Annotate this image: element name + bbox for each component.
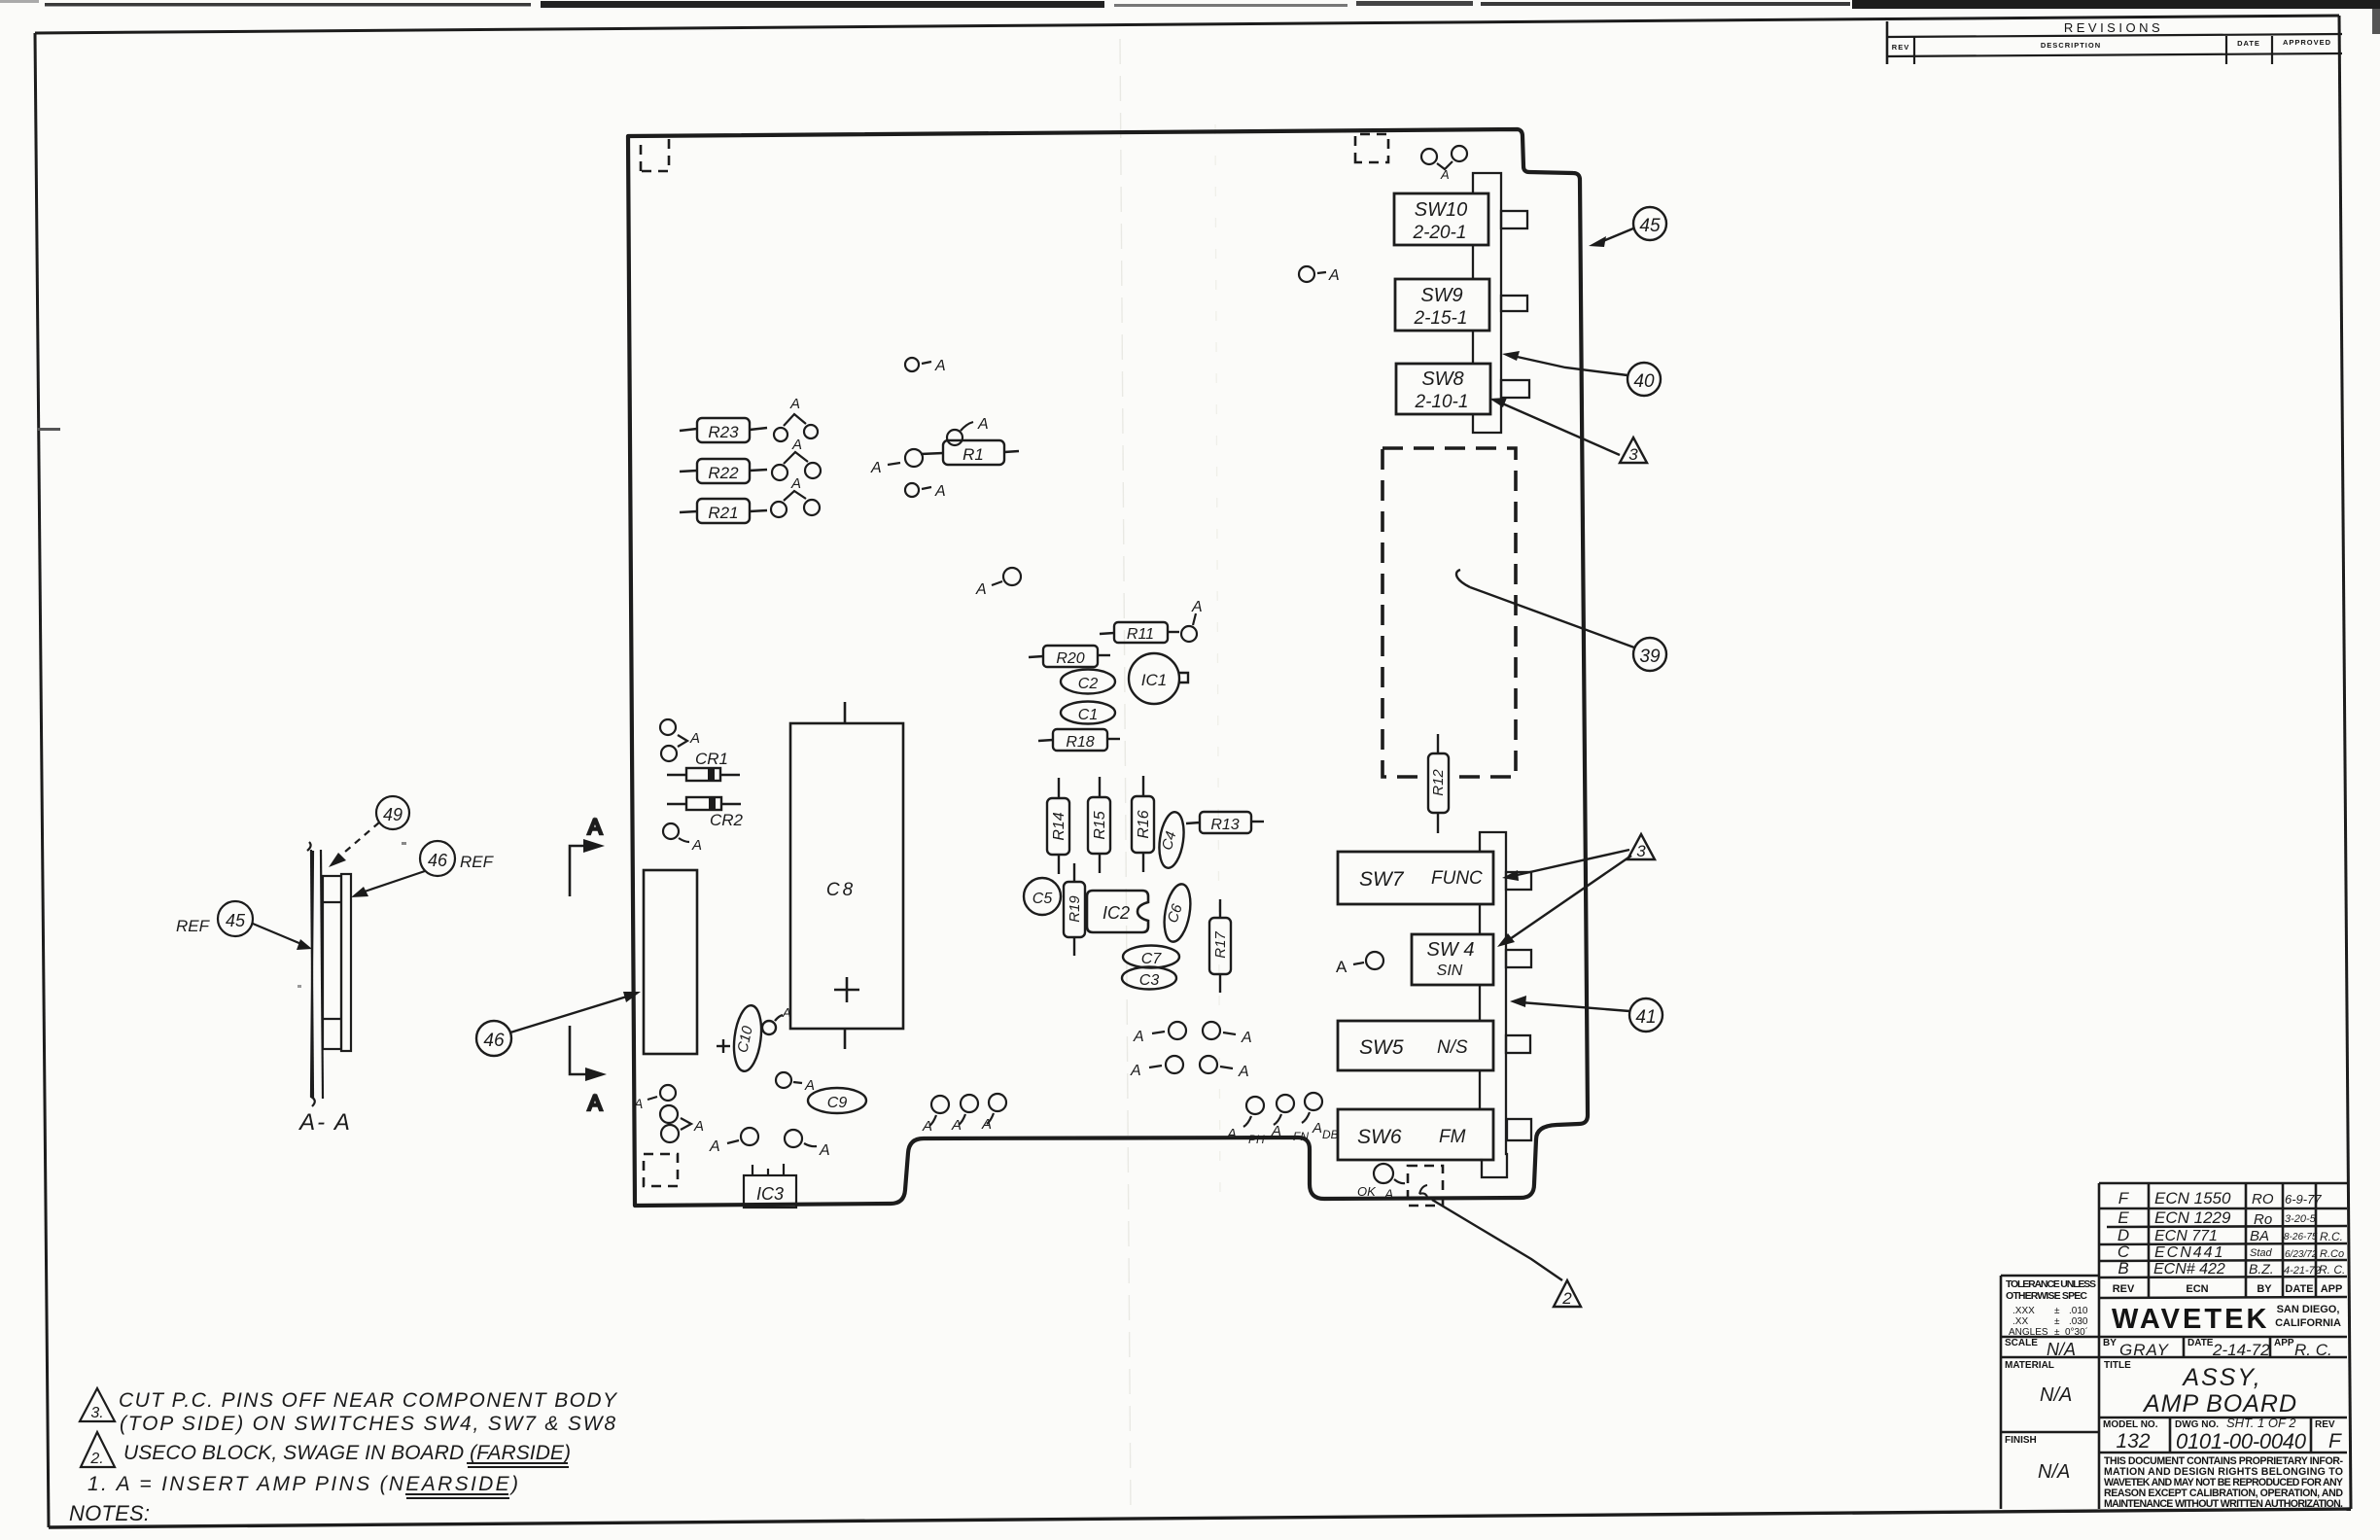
svg-text:A: A: [977, 416, 989, 433]
pad O-A below C10: [776, 1072, 815, 1094]
resistor R14 (vertical): [1047, 778, 1069, 874]
resistor R21: [680, 499, 767, 523]
ECN revision table grid: [2099, 1182, 2347, 1185]
svg-text:F: F: [2118, 1189, 2130, 1207]
svg-text:NOTES:: NOTES:: [69, 1501, 150, 1525]
fold line vertical faint: [1120, 39, 1131, 1517]
svg-text:E: E: [2117, 1208, 2129, 1227]
switch SW5 N/S: [1338, 1021, 1493, 1070]
border frame: [35, 16, 2339, 33]
svg-text:R11: R11: [1127, 626, 1154, 643]
capacitor C6 (tilted): [1160, 882, 1194, 943]
proprietary text: [2104, 1455, 2343, 1510]
svg-text:FINISH: FINISH: [2005, 1435, 2037, 1446]
svg-text:DESCRIPTION: DESCRIPTION: [2041, 41, 2101, 50]
svg-text:IC1: IC1: [1141, 671, 1167, 689]
section cut arrow A (top): [570, 815, 605, 896]
svg-text:132: 132: [2116, 1430, 2150, 1452]
svg-text:WAVETEK: WAVETEK: [2112, 1304, 2267, 1335]
svg-text:2.: 2.: [89, 1451, 103, 1467]
svg-text:R.Co: R.Co: [2320, 1248, 2344, 1260]
svg-text:6-9-77: 6-9-77: [2285, 1192, 2322, 1207]
svg-text:APP: APP: [2274, 1338, 2294, 1348]
svg-text:SHT. 1 OF 2: SHT. 1 OF 2: [2226, 1416, 2296, 1430]
svg-text:ECN# 422: ECN# 422: [2153, 1261, 2225, 1277]
callout triangle 3 (upper): [1489, 398, 1647, 464]
svg-text:REV: REV: [1892, 43, 1909, 52]
svg-text:A: A: [691, 837, 702, 854]
svg-text:46: 46: [483, 1031, 505, 1051]
svg-text:USECO BLOCK, SWAGE IN BOARD: USECO BLOCK, SWAGE IN BOARD (FARSIDE): [123, 1442, 571, 1464]
svg-text:R19: R19: [1067, 895, 1083, 923]
resistor R18: [1038, 729, 1120, 751]
svg-text:3: 3: [1636, 842, 1646, 860]
svg-text:ANGLES: ANGLES: [2009, 1327, 2048, 1338]
svg-text:PH: PH: [1248, 1133, 1265, 1146]
ECN table handwritten rows: [2117, 1189, 2345, 1277]
resistor R20: [1029, 646, 1110, 667]
svg-text:SW8: SW8: [1421, 368, 1463, 390]
svg-text:DB: DB: [1322, 1128, 1339, 1141]
switch SW10: [1394, 193, 1488, 245]
svg-text:F: F: [2328, 1430, 2342, 1452]
svg-text:R. C.: R. C.: [2319, 1263, 2345, 1277]
svg-text:B: B: [2117, 1259, 2128, 1277]
pad OK A: [1357, 1164, 1405, 1202]
svg-text:SAN DIEGO,: SAN DIEGO,: [2277, 1304, 2340, 1315]
svg-text:MODEL NO.: MODEL NO.: [2103, 1419, 2158, 1430]
svg-text:A: A: [633, 1096, 643, 1111]
WAVETEK logo row: [2112, 1304, 2341, 1335]
callout 45: [1589, 207, 1666, 247]
svg-text:APP: APP: [2321, 1283, 2343, 1295]
resistor R22: [680, 459, 767, 483]
svg-text:IC2: IC2: [1102, 903, 1130, 923]
pads near CR1: [660, 719, 700, 761]
svg-text:A: A: [981, 1116, 992, 1133]
svg-text:R23: R23: [708, 423, 739, 441]
resistor R13: [1186, 812, 1264, 833]
svg-text:A: A: [790, 475, 801, 492]
callout 39: [1456, 570, 1666, 671]
svg-text:Ro: Ro: [2254, 1211, 2272, 1228]
dashed square top-middle: [1355, 134, 1388, 162]
scale/by/date/app row: [2005, 1338, 2332, 1359]
pad O-A below R1: [905, 483, 946, 500]
svg-text:±: ±: [2054, 1306, 2060, 1316]
resistor R15 (vertical): [1088, 777, 1110, 873]
capacitor C2: [1061, 670, 1115, 694]
callout 46 REF: [351, 841, 495, 897]
pads O-A top right of board: [1421, 146, 1467, 182]
svg-text:SW 4: SW 4: [1427, 939, 1475, 961]
svg-text:±: ±: [2054, 1316, 2060, 1327]
resistor R17 (vertical): [1209, 899, 1231, 993]
svg-text:3: 3: [1628, 445, 1638, 464]
resistor R12 (vertical, in dashed rect): [1428, 734, 1449, 833]
svg-text:R14: R14: [1051, 812, 1067, 840]
svg-text:N/S: N/S: [1437, 1037, 1468, 1058]
capacitor C9: [808, 1088, 866, 1113]
capacitor C8 (large): [790, 702, 903, 1049]
svg-text:C5: C5: [1032, 891, 1053, 907]
svg-text:B.Z.: B.Z.: [2249, 1261, 2274, 1277]
svg-text:SIN: SIN: [1437, 962, 1463, 979]
callout 49 (dashed leader): [329, 796, 409, 867]
svg-text:.010: .010: [2069, 1306, 2088, 1316]
svg-text:A: A: [934, 358, 946, 374]
svg-text:REF: REF: [176, 917, 211, 935]
switch SW8: [1396, 364, 1490, 414]
svg-text:C9: C9: [827, 1095, 848, 1111]
bracket strip upper (item 45/40): [1473, 173, 1529, 433]
svg-text:A: A: [693, 1118, 704, 1135]
svg-text:Stad: Stad: [2250, 1247, 2273, 1259]
svg-text:A: A: [782, 1005, 791, 1020]
svg-text:A: A: [1226, 1126, 1237, 1142]
svg-text:41: 41: [1635, 1007, 1656, 1028]
svg-text:46: 46: [428, 851, 448, 870]
tolerance block: [2001, 1275, 2099, 1277]
svg-text:3-20-5: 3-20-5: [2285, 1213, 2317, 1225]
section A-A: bracket 46 profile: [323, 874, 351, 1051]
svg-text:40: 40: [1633, 371, 1655, 392]
svg-text:MAINTENANCE WITHOUT WRITTEN AU: MAINTENANCE WITHOUT WRITTEN AUTHORIZATIO…: [2104, 1498, 2343, 1510]
section A-A side view: board bar: [307, 842, 323, 1106]
pads A-O / O-A pair row2: [1130, 1056, 1249, 1080]
svg-text:2: 2: [1561, 1289, 1572, 1308]
callout triangle 3 (lower, by SW7/SW4): [1497, 834, 1655, 947]
svg-text:REV: REV: [2315, 1419, 2335, 1430]
ECN header row printed: [2113, 1283, 2343, 1295]
switch SW4 SIN: [1412, 934, 1493, 985]
resistor R23: [680, 418, 767, 442]
svg-text:R22: R22: [708, 464, 739, 482]
svg-text:A: A: [1130, 1063, 1141, 1079]
pad A-O middle: [975, 568, 1021, 598]
notes: triangle 2: [81, 1432, 115, 1467]
svg-text:C8: C8: [826, 880, 856, 900]
capacitor C7: [1123, 946, 1179, 968]
stacked pads with A: [660, 1105, 704, 1142]
svg-text:.030: .030: [2069, 1316, 2088, 1327]
svg-text:R1: R1: [962, 445, 984, 464]
svg-text:A- A: A- A: [297, 1109, 352, 1136]
pad A-O left of SW4: [1336, 952, 1383, 976]
svg-text:N/A: N/A: [2038, 1461, 2070, 1483]
switch SW7 FUNC: [1338, 852, 1493, 904]
svg-text:R16: R16: [1136, 810, 1152, 838]
IC U1 (IC1): [1129, 653, 1188, 704]
diode CR1: [667, 750, 740, 781]
REVISIONS table: [1887, 20, 2342, 64]
svg-text:A: A: [689, 730, 700, 747]
svg-text:ECN: ECN: [2186, 1283, 2208, 1295]
diode CR2: [667, 797, 744, 829]
svg-text:REVISIONS: REVISIONS: [2064, 20, 2163, 35]
svg-text:ECN441: ECN441: [2154, 1244, 2224, 1261]
pad A (right of R11): [1181, 599, 1203, 642]
dashed square bottom-right (useco block): [1408, 1166, 1443, 1206]
notes: triangle 3: [80, 1388, 115, 1421]
svg-text:SCALE: SCALE: [2005, 1338, 2038, 1348]
svg-text:4-21-72: 4-21-72: [2284, 1265, 2321, 1277]
svg-text:OK: OK: [1357, 1184, 1377, 1199]
connector item 46 (rect on left edge): [644, 870, 697, 1054]
svg-text:OTHERWISE SPEC: OTHERWISE SPEC: [2006, 1290, 2087, 1302]
pad O-A below CR2: [663, 823, 702, 854]
svg-text:CR1: CR1: [695, 750, 728, 768]
svg-text:A: A: [1191, 599, 1203, 615]
pad pair A (for R23): [774, 396, 818, 441]
svg-text:A: A: [1336, 958, 1347, 976]
svg-text:ECN 771: ECN 771: [2154, 1228, 2218, 1244]
svg-text:8-26-75: 8-26-75: [2284, 1232, 2318, 1242]
svg-text:A: A: [588, 1091, 603, 1115]
svg-text:DATE: DATE: [2237, 39, 2260, 48]
svg-text:R.C.: R.C.: [2320, 1230, 2343, 1243]
svg-text:CUT P.C. PINS OFF NEAR COM: CUT P.C. PINS OFF NEAR COMPONENT BODY: [119, 1389, 618, 1412]
svg-text:ASSY,: ASSY,: [2181, 1364, 2261, 1391]
svg-text:R21: R21: [708, 504, 738, 522]
svg-text:3.: 3.: [90, 1405, 103, 1421]
svg-text:2-10-1: 2-10-1: [1415, 392, 1469, 412]
svg-text:FUNC: FUNC: [1431, 868, 1483, 889]
svg-text:SW9: SW9: [1420, 285, 1462, 306]
capacitor C1: [1061, 702, 1115, 724]
svg-text:SW6: SW6: [1357, 1126, 1402, 1148]
svg-text:A: A: [804, 1077, 815, 1094]
callout 46 (to board left edge): [476, 992, 641, 1056]
callout 40: [1502, 351, 1661, 396]
bracket strip lower (item 41): [1480, 832, 1531, 1177]
three pads A PH / A FN / A DB: [1226, 1093, 1339, 1146]
svg-text:39: 39: [1639, 647, 1661, 667]
pad A-O lower-left: [633, 1085, 676, 1111]
svg-text:SW10: SW10: [1415, 199, 1467, 221]
pad O-A above R1: [905, 358, 946, 374]
svg-text:SW5: SW5: [1359, 1036, 1404, 1059]
callout REF 45: [176, 901, 312, 950]
svg-text:DATE: DATE: [2187, 1338, 2214, 1348]
scan smudge band top: [45, 3, 531, 7]
svg-text:2-14-72: 2-14-72: [2212, 1341, 2270, 1359]
svg-text:R12: R12: [1430, 769, 1447, 796]
svg-text:45: 45: [226, 911, 246, 930]
tolerance texts: [2006, 1278, 2096, 1302]
svg-text:A: A: [588, 815, 603, 839]
capacitor C3: [1122, 967, 1176, 990]
dashed square bottom-left: [644, 1154, 678, 1186]
svg-text:N/A: N/A: [2040, 1384, 2072, 1406]
svg-text:RO: RO: [2252, 1191, 2274, 1207]
svg-text:A: A: [1440, 167, 1450, 182]
capacitor C5: [1024, 878, 1061, 915]
svg-text:R15: R15: [1092, 811, 1108, 839]
resistor R11: [1100, 622, 1179, 643]
svg-text:TOLERANCE UNLESS: TOLERANCE UNLESS: [2006, 1278, 2096, 1290]
svg-text:A: A: [951, 1117, 962, 1134]
pad A-O left of R1: [870, 449, 923, 476]
svg-text:A: A: [819, 1142, 830, 1159]
PCB board outline: [628, 129, 1588, 1206]
svg-text:A: A: [870, 460, 882, 476]
svg-text:R13: R13: [1210, 817, 1239, 833]
svg-text:6/23/72: 6/23/72: [2285, 1249, 2318, 1260]
svg-text:APPROVED: APPROVED: [2283, 38, 2331, 47]
section cut arrow A (bottom): [570, 1026, 607, 1115]
resistor R16 (vertical): [1132, 776, 1154, 872]
svg-text:A: A: [789, 396, 800, 412]
svg-text:TITLE: TITLE: [2104, 1360, 2131, 1371]
scan ticks: [37, 428, 60, 431]
svg-text:C3: C3: [1139, 972, 1160, 989]
svg-text:45: 45: [1639, 216, 1661, 236]
svg-text:A: A: [934, 483, 946, 500]
IC3 (bottom edge): [744, 1164, 796, 1207]
pad pair A (for R22): [772, 437, 821, 480]
svg-text:ECN 1229: ECN 1229: [2154, 1208, 2231, 1227]
pads A-O / O-A pair row1 (right of C3): [1133, 1022, 1252, 1046]
svg-text:A: A: [922, 1118, 932, 1135]
svg-text:BA: BA: [2250, 1228, 2269, 1244]
three pads with A tails (center bottom): [922, 1094, 1006, 1135]
capacitor C4 (tilted): [1156, 811, 1187, 870]
pad O-A upper (curl): [947, 416, 989, 445]
svg-text:IC3: IC3: [756, 1184, 784, 1204]
svg-text:A: A: [1271, 1123, 1281, 1139]
svg-text:R18: R18: [1066, 734, 1094, 751]
svg-text:A: A: [791, 437, 802, 453]
svg-text:C7: C7: [1141, 951, 1163, 967]
callout 41: [1510, 996, 1662, 1032]
resistor R1: [921, 440, 1019, 465]
svg-text:A: A: [709, 1138, 720, 1155]
svg-text:CALIFORNIA: CALIFORNIA: [2275, 1317, 2341, 1329]
pad O-A (left of SW9): [1299, 266, 1340, 284]
svg-text:2-15-1: 2-15-1: [1414, 308, 1468, 329]
svg-text:A: A: [1241, 1030, 1252, 1046]
pad pair A (for R21): [771, 475, 820, 517]
svg-text:R. C.: R. C.: [2294, 1341, 2332, 1359]
svg-text:CR2: CR2: [710, 811, 744, 829]
svg-text:FM: FM: [1439, 1127, 1466, 1147]
switch SW6 FM: [1338, 1109, 1493, 1160]
svg-text:SW7: SW7: [1359, 868, 1405, 891]
svg-text:REF: REF: [460, 853, 495, 871]
svg-text:REV: REV: [2113, 1283, 2135, 1295]
svg-text:A: A: [1133, 1029, 1144, 1045]
svg-text:±: ±: [2054, 1327, 2060, 1338]
svg-text:MATERIAL: MATERIAL: [2005, 1360, 2054, 1371]
svg-text:.XX: .XX: [2012, 1316, 2028, 1327]
svg-text:0101-00-0040: 0101-00-0040: [2176, 1429, 2307, 1453]
svg-text:0°30´: 0°30´: [2065, 1326, 2088, 1338]
svg-text:A: A: [1383, 1186, 1393, 1202]
svg-text:C1: C1: [1078, 707, 1098, 723]
pad O-A bottom: [785, 1130, 830, 1159]
svg-text:BY: BY: [2103, 1338, 2117, 1348]
svg-text:2-20-1: 2-20-1: [1413, 223, 1467, 243]
svg-text:FN: FN: [1293, 1130, 1309, 1143]
svg-text:R17: R17: [1212, 931, 1229, 959]
svg-text:AMP BOARD: AMP BOARD: [2142, 1390, 2297, 1417]
svg-text:A: A: [1238, 1064, 1249, 1080]
svg-text:N/A: N/A: [2047, 1340, 2076, 1359]
svg-text:R20: R20: [1056, 650, 1084, 667]
svg-text:A: A: [975, 581, 987, 598]
svg-text:A: A: [1328, 267, 1340, 284]
callout triangle 2 (bottom): [1432, 1200, 1581, 1308]
switch SW9: [1395, 279, 1489, 331]
pad A-O bottom: [709, 1128, 758, 1155]
IC U2 (IC2) with notch: [1087, 891, 1148, 932]
svg-text:DATE: DATE: [2285, 1283, 2313, 1295]
resistor R19 (vertical): [1064, 863, 1085, 956]
svg-text:GRAY: GRAY: [2119, 1341, 2170, 1359]
dashed square top-left of board: [641, 136, 669, 171]
svg-text:.XXX: .XXX: [2012, 1306, 2035, 1316]
svg-text:A: A: [1312, 1120, 1322, 1137]
svg-text:BY: BY: [2257, 1283, 2272, 1295]
svg-text:ECN 1550: ECN 1550: [2154, 1189, 2231, 1207]
capacitor C10 (tilted electrolytic): [717, 1004, 791, 1073]
svg-text:49: 49: [383, 805, 402, 824]
dashed rectangle item 39: [1382, 448, 1516, 777]
svg-text:C2: C2: [1078, 676, 1099, 692]
